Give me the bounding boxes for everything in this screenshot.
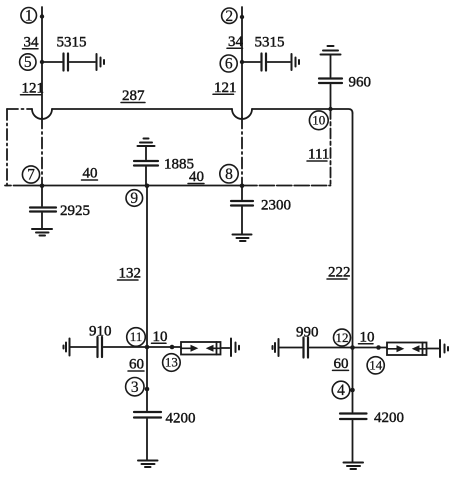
svg-text:2925: 2925 (60, 203, 90, 219)
wire from plates to ground (70, 61, 96, 63)
capacitor 2925 (bus 7 shunt): stem (41, 186, 43, 206)
capacitor 2300 plates (231, 201, 253, 206)
svg-text:5315: 5315 (57, 35, 87, 51)
capacitor 5315 plates (64, 54, 69, 71)
junction dot at bus 5 tap (40, 60, 44, 64)
capacitor 960 plates (319, 79, 342, 84)
wire ground to plates (145, 147, 147, 160)
svg-text:910: 910 (89, 324, 112, 340)
junction dot bus 3 tap (145, 387, 150, 392)
capacitor 4200 plates (bus 4 shunt) (340, 414, 367, 420)
svg-text:4: 4 (337, 382, 345, 399)
svg-text:1: 1 (25, 8, 33, 25)
wire: 222 line from 287 corner down to bus 12 then bus 4 and shunt (352, 113, 354, 412)
svg-text:4200: 4200 (166, 411, 196, 427)
wire: feeder below crossover to 40-line (dash-dot) (241, 118, 243, 186)
junction dot V1/40-line (40, 184, 45, 189)
wire tap to load box (379, 347, 388, 349)
wire tap to load box (172, 346, 181, 348)
bus 5 (20, 54, 36, 71)
wire bus 11 down to 4200 plates (146, 347, 148, 411)
capacitor 2925 plates (30, 208, 56, 212)
label 121 (line 5-7 flow, underlined) (21, 81, 45, 97)
wire plates to ground (241, 207, 243, 234)
svg-text:11: 11 (130, 329, 143, 344)
svg-text:990: 990 (296, 325, 319, 341)
wire: 287 tie-line mid span (52, 108, 232, 110)
junction dot bus 11 (145, 345, 150, 350)
wire: 40-line main span bus7 to bus8 (14, 185, 243, 187)
svg-text:10: 10 (153, 329, 168, 345)
junction dot at bus 2 tap (240, 15, 244, 19)
wire hop over feeder 2 (crossover arc) (232, 109, 252, 119)
load 13 arrow right-pointing (191, 345, 199, 352)
svg-text:132: 132 (119, 266, 142, 282)
wire hop over feeder 1 (crossover arc) (32, 109, 52, 119)
svg-text:9: 9 (130, 190, 138, 207)
svg-text:4200: 4200 (374, 410, 404, 426)
label 132 (underlined) (118, 266, 142, 282)
bus 13 (163, 354, 181, 372)
ground (bus 4 shunt) (344, 463, 364, 470)
label 40 (span 7-9, underlined) (82, 166, 98, 182)
bus 7 (22, 166, 39, 184)
capacitor 5315 plates (262, 54, 267, 71)
svg-text:10: 10 (312, 112, 325, 127)
svg-text:13: 13 (165, 355, 178, 370)
label 121 (line 6-8 flow, underlined) (213, 80, 237, 96)
bus 11 (127, 328, 146, 347)
capacitor 1885 plates (134, 161, 158, 166)
ground (sideways, load 14) (440, 340, 448, 357)
junction dot at bus 1 tap (40, 14, 44, 18)
wire: bus1 to bus5 vertical feeder (upper, solid) (41, 7, 43, 118)
label 60 (flow to bus 3, underlined) (128, 357, 144, 373)
junction dot 1885/132/40-line (145, 184, 150, 189)
svg-text:8: 8 (225, 166, 233, 183)
label 10 (flow to load 14, underlined) (359, 329, 375, 345)
zone boundary (dash-dot, left edge vertical) (6, 109, 8, 186)
wire from plates to ground (268, 61, 291, 63)
label 34 (line 1-5 flow, underlined) (23, 35, 40, 51)
bus 4 (332, 381, 350, 399)
label 60 (flow to bus 4, underlined) (333, 356, 349, 372)
load 13 double end bar (216, 342, 218, 355)
bus 6 (220, 55, 237, 73)
load 14 arrow left-pointing (412, 345, 420, 352)
wire plates to ground (146, 419, 148, 460)
junction dot load tap 13 (170, 345, 175, 350)
capacitor 5315 (bus 5 shunt): wire to plates (43, 61, 62, 63)
svg-text:1885: 1885 (164, 157, 194, 173)
capacitor 960 branch: inverted ground (top) (321, 46, 341, 55)
capacitor 2300 (bus 8 shunt): stem (241, 186, 243, 200)
svg-text:5315: 5315 (255, 35, 285, 51)
junction dot at bus 6 tap (240, 60, 244, 64)
capacitor 990 plates (304, 338, 309, 358)
label 287 (tie-line flow, underlined) (121, 88, 145, 104)
wire load box to ground (427, 348, 439, 350)
junction dot 960/287 (328, 107, 332, 111)
bus 14 (367, 357, 384, 374)
svg-text:111: 111 (308, 147, 329, 163)
svg-text:60: 60 (334, 356, 349, 372)
wire plates to 40-line (145, 167, 147, 186)
wire plates to ground (41, 213, 43, 228)
svg-text:222: 222 (328, 265, 351, 281)
svg-text:2: 2 (225, 8, 233, 25)
svg-text:40: 40 (83, 166, 98, 182)
label 10 (flow to load 13, underlined) (152, 329, 168, 345)
wire: 40-line right span (long dash) (242, 185, 331, 187)
bus 3 (126, 378, 144, 396)
svg-text:6: 6 (225, 56, 233, 73)
svg-text:60: 60 (129, 357, 144, 373)
bus 1 (21, 8, 37, 25)
wire: 132 line bus9-area down to bus 11 (146, 186, 148, 348)
load 13 internal line (181, 347, 191, 349)
junction dot bus 12 (350, 345, 355, 350)
bus 2 (222, 8, 237, 25)
capacitor 1885 branch: inverted ground (top) (138, 139, 155, 147)
ground (bus 8 shunt) (233, 235, 252, 242)
svg-text:5: 5 (24, 54, 32, 71)
svg-text:10: 10 (360, 329, 375, 345)
wire plates to 287-line (330, 85, 332, 110)
bus 8 (220, 165, 238, 183)
capacitor 4200 plates (bus 3 shunt) (134, 412, 161, 418)
junction dot V2/40-line (240, 184, 245, 189)
capacitor 910 plates (98, 337, 103, 357)
load 14 box (387, 343, 427, 356)
wire: 111 line down to 40-line (long dash) (330, 109, 332, 186)
wire: bus2 to bus6 vertical feeder (upper, solid) (241, 7, 243, 118)
ground (sideways, left of 990 cap) (273, 339, 279, 356)
load 13 arrow left-pointing (206, 345, 214, 352)
bus 9 (126, 190, 143, 208)
label 222 (underlined) (327, 265, 351, 281)
wire: 40-line left dash lead-in (5, 185, 11, 187)
ground (sideways, left of 910 cap) (64, 339, 70, 356)
wire ground to 990 plates (280, 347, 303, 349)
svg-text:14: 14 (369, 358, 383, 373)
capacitor 5315 (bus 6 shunt): wire to plates (243, 61, 260, 63)
wire: 287 tie-line right span with corner into 222 line (252, 109, 353, 113)
wire ground to 910 plates (71, 346, 97, 348)
svg-text:7: 7 (27, 167, 35, 184)
svg-text:960: 960 (349, 75, 372, 91)
svg-text:3: 3 (131, 379, 139, 396)
ground (bus 3 shunt) (138, 461, 158, 468)
junction dot load tap 14 (376, 345, 381, 350)
ground (bus 7 shunt) (32, 229, 52, 236)
bus 10 (309, 111, 328, 130)
load 14 arrow right-pointing (397, 345, 405, 352)
wire plates to bus 11 junction and load tap (104, 346, 173, 348)
svg-text:12: 12 (336, 330, 349, 345)
ground (sideways, bus 6 shunt) (292, 54, 300, 70)
load 14 double end bar (422, 343, 424, 356)
svg-text:287: 287 (122, 88, 145, 104)
ground (sideways, load 13) (231, 339, 239, 357)
ground (sideways, bus 5 shunt) (97, 54, 105, 70)
wire load box to ground (221, 347, 230, 349)
svg-text:2300: 2300 (261, 198, 291, 214)
wire: 287 tie-line, dash-dot lead-in from boundary (7, 108, 32, 110)
junction dot bus 4 tap (350, 388, 355, 393)
label 34 (line 2-6 flow, underlined) (227, 34, 244, 50)
wire plates to bus 12 junction and load tap (310, 347, 379, 349)
load 13 box (181, 342, 221, 355)
label 40 (span 9-8, underlined) (188, 169, 204, 185)
wire ground to plates (330, 55, 332, 77)
bus 12 (334, 329, 351, 346)
wire: feeder below crossover to 40-line (dash-dot) (41, 118, 43, 186)
load 14 internal line (387, 348, 397, 350)
wire plates to ground (352, 421, 354, 462)
label 111 (underlined) (307, 147, 329, 163)
